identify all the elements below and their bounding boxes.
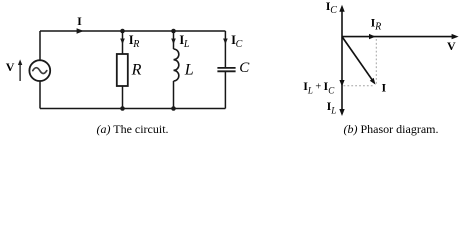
svg-text:L: L: [330, 105, 336, 115]
source V1 (AC): [29, 60, 50, 81]
arrow axis up (I_C direction): [339, 5, 344, 12]
arrow V (voltage reference, up): [18, 59, 22, 81]
wire L branch upper: [173, 31, 175, 49]
arrow I_R: [120, 39, 125, 45]
svg-text:C: C: [328, 85, 335, 95]
label I_L + I_C: [303, 79, 335, 95]
phasor vertical axis: [341, 9, 343, 112]
label I_C: [231, 33, 243, 50]
svg-text:L: L: [184, 62, 194, 79]
svg-text:L: L: [307, 85, 313, 95]
svg-text:V: V: [6, 60, 15, 74]
svg-text:R: R: [132, 39, 139, 50]
phasor I (diagonal): [342, 37, 376, 85]
svg-text:C: C: [330, 5, 337, 16]
arrow I_L + I_C (down on axis): [339, 80, 344, 87]
node top R junction: [120, 29, 125, 34]
label I_R: [129, 33, 140, 50]
inductor L: [174, 49, 179, 81]
arrow I (top rail current): [77, 28, 84, 33]
dashed projection vertical: [375, 39, 377, 85]
svg-text:L: L: [183, 39, 190, 50]
svg-text:I: I: [77, 14, 82, 28]
svg-text:R: R: [131, 62, 142, 79]
wire C branch upper: [224, 31, 226, 67]
label I_L: [179, 33, 190, 50]
svg-text:(b) Phasor diagram.: (b) Phasor diagram.: [344, 122, 439, 136]
phasor horizontal axis: [342, 36, 454, 38]
label I_C (phasor, top): [326, 0, 337, 16]
svg-text:C: C: [236, 39, 243, 50]
wire bottom rail: [40, 108, 225, 110]
wire top rail: [40, 30, 225, 32]
wire R branch upper: [122, 31, 124, 54]
node bottom L junction: [171, 106, 176, 111]
wire L branch lower: [173, 81, 175, 109]
arrow axis down (I_L direction): [339, 109, 344, 116]
svg-text:(a) The circuit.: (a) The circuit.: [96, 122, 168, 136]
node bottom R junction: [120, 106, 125, 111]
wire C branch lower: [224, 72, 226, 109]
label I_L (phasor, bottom): [327, 99, 337, 115]
dashed projection horizontal: [344, 85, 375, 87]
label I_R (phasor): [371, 15, 382, 32]
wire left branch upper: [39, 31, 41, 60]
capacitor C: [217, 68, 235, 71]
svg-text:+: +: [315, 82, 321, 93]
arrow I_C: [223, 39, 228, 45]
arrow V axis (right): [452, 34, 459, 39]
svg-text:C: C: [239, 60, 250, 76]
resistor R: [117, 54, 128, 86]
node top L junction: [171, 29, 176, 34]
svg-text:V: V: [447, 39, 456, 53]
arrow I_R (right, on axis): [369, 34, 376, 39]
wire left branch lower: [39, 81, 41, 108]
svg-text:R: R: [374, 21, 381, 32]
svg-text:I: I: [382, 81, 387, 95]
arrow I_L: [171, 39, 176, 45]
wire R branch lower: [122, 86, 124, 109]
